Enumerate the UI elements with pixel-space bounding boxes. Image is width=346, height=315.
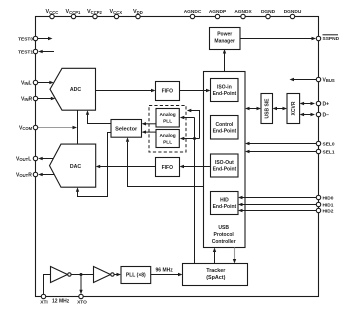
pin TEST0 xyxy=(18,36,38,42)
PLL x8 xyxy=(121,267,151,284)
wire TEST0 input stub xyxy=(38,37,53,40)
pin D- xyxy=(316,112,329,118)
USB protocol controller xyxy=(204,72,246,248)
svg-text:12 MHz: 12 MHz xyxy=(52,299,70,305)
pin VCCP1 xyxy=(66,9,82,19)
pin XTI xyxy=(40,294,48,305)
pin VCCC xyxy=(46,9,59,19)
wire branch up to dashed PLL block input xyxy=(187,109,200,139)
pin VDD xyxy=(133,9,143,19)
analog PLL 2 xyxy=(156,130,179,148)
svg-text:TEST0: TEST0 xyxy=(18,36,33,42)
svg-text:VDD: VDD xyxy=(133,9,143,15)
wire XCVR to D+ pin (bidirectional) xyxy=(300,102,315,105)
pin VOUTR xyxy=(16,172,38,178)
svg-text:HID0: HID0 xyxy=(323,195,334,201)
wire SEL0 to USB PC xyxy=(245,142,316,145)
wire SEL1 to USB PC xyxy=(245,150,316,153)
wire HID2 to HID end-point xyxy=(238,209,316,212)
svg-text:VCCP2: VCCP2 xyxy=(87,9,103,15)
ADC xyxy=(50,68,96,110)
wire DAC to VOUTL xyxy=(38,157,53,160)
wire inverter 1 out to inverter 2 in xyxy=(71,273,93,276)
wire HID0 to HID end-point xyxy=(238,196,316,199)
chip boundary xyxy=(36,17,319,297)
svg-text:96 MHz: 96 MHz xyxy=(156,267,174,273)
wire USB SIE to XCVR (bidirectional) xyxy=(273,107,288,110)
wire USB PC to USB SIE (bidirectional) xyxy=(245,107,261,110)
pin VOUTL xyxy=(16,156,38,162)
wire XCVR to D- pin (bidirectional) xyxy=(300,113,315,116)
svg-text:VCCC: VCCC xyxy=(46,9,59,15)
svg-text:FIFO: FIFO xyxy=(162,165,173,171)
pin VBUS xyxy=(316,77,335,83)
svg-text:AGNDC: AGNDC xyxy=(184,9,202,15)
wire analog PLL 2 to selector xyxy=(142,130,157,133)
svg-text:End-Point: End-Point xyxy=(213,204,237,210)
svg-text:VCOM: VCOM xyxy=(19,125,33,131)
svg-text:Power: Power xyxy=(217,32,232,38)
FIFO F1 (ADC path) xyxy=(156,82,180,101)
FIFO F2 (DAC path) xyxy=(156,158,180,177)
svg-text:XTI: XTI xyxy=(40,300,48,306)
pin DGNDU xyxy=(284,9,302,19)
pin VCCX xyxy=(110,9,123,19)
pin AGNDC xyxy=(184,9,202,19)
dual analog PLL dashed enclosure xyxy=(149,106,186,153)
wire selector to ADC clock xyxy=(86,110,111,123)
wire TEST1 output stub xyxy=(38,50,54,53)
svg-text:ADC: ADC xyxy=(70,87,81,93)
svg-text:FIFO: FIFO xyxy=(162,89,173,95)
svg-text:End-Point: End-Point xyxy=(213,166,237,172)
svg-text:ISO-in: ISO-in xyxy=(217,84,232,90)
pin VinL xyxy=(21,80,38,86)
pin AGNDX xyxy=(234,9,252,19)
control end-point xyxy=(211,116,239,140)
wire ADC bottom to DAC top xyxy=(77,110,79,144)
pin DGND xyxy=(261,9,276,19)
svg-text:VOUTL: VOUTL xyxy=(16,156,31,162)
wire power manager to SSPND pin xyxy=(240,37,316,40)
svg-text:VINL: VINL xyxy=(21,80,32,86)
svg-text:Analog: Analog xyxy=(159,133,175,139)
power manager U-PM xyxy=(210,28,241,50)
pin AGNDP xyxy=(209,9,227,19)
USB SIE xyxy=(261,94,273,124)
wire USB protocol controller to power manager xyxy=(223,49,226,72)
HID end-point xyxy=(211,192,239,215)
svg-text:HID: HID xyxy=(220,198,229,204)
XCVR transceiver xyxy=(287,94,300,124)
pin TEST1 xyxy=(18,49,38,55)
pin HID2 xyxy=(316,208,333,214)
wire PLL to tracker, 96 MHz xyxy=(151,267,183,276)
svg-text:USB: USB xyxy=(218,225,229,231)
pin SEL0 xyxy=(316,141,335,147)
wire VCOM (grey) to ADC/DAC node xyxy=(38,126,77,129)
svg-text:SEL1: SEL1 xyxy=(323,149,335,155)
wire tracker to USB protocol controller xyxy=(213,248,216,264)
wire ISO-out end-point to FIFO F2 xyxy=(180,165,211,168)
wire FIFO F2 to DAC xyxy=(96,165,156,168)
wire inverter 2 out to PLL xyxy=(114,273,121,276)
wire ADC to FIFO F1 xyxy=(96,89,156,92)
wire VinL to ADC xyxy=(38,81,54,84)
svg-text:PLL: PLL xyxy=(163,119,172,125)
wire FIFO F1 to ISO-in end-point xyxy=(180,89,211,92)
wire USB protocol controller to tracker (grey) xyxy=(233,248,236,264)
svg-text:Tracker: Tracker xyxy=(206,268,226,274)
wire selector to DAC clock xyxy=(76,133,111,197)
wire XTI pin to inverter 1 xyxy=(44,275,51,295)
svg-text:USB SIE: USB SIE xyxy=(265,98,271,119)
wire HID1 to HID end-point xyxy=(238,203,316,206)
svg-text:Analog: Analog xyxy=(159,112,175,118)
junction node xyxy=(80,273,83,276)
svg-text:PLL: PLL xyxy=(163,139,172,145)
wire VBUS input stub xyxy=(290,78,317,81)
wire branch to analog PLL 2 xyxy=(180,137,200,140)
svg-text:HID2: HID2 xyxy=(323,208,334,214)
svg-text:VBUS: VBUS xyxy=(323,77,335,83)
tracker (SpAct) xyxy=(183,264,248,286)
svg-text:DGND: DGND xyxy=(261,9,276,15)
svg-text:Protocol: Protocol xyxy=(214,232,235,238)
oscillator inverter 2 xyxy=(94,267,115,283)
svg-text:Controller: Controller xyxy=(212,239,236,245)
pin D+ xyxy=(316,101,329,107)
svg-text:VCCP1: VCCP1 xyxy=(66,9,82,15)
svg-text:VCCX: VCCX xyxy=(110,9,123,15)
svg-text:D−: D− xyxy=(323,112,330,118)
svg-text:Selector: Selector xyxy=(115,126,138,132)
wire VinR to ADC xyxy=(38,97,55,100)
wire DAC to VOUTR xyxy=(38,173,54,176)
pin HID0 xyxy=(316,195,333,201)
wire analog PLL 1 to selector xyxy=(142,122,157,125)
wire branch to selector bottom xyxy=(126,137,204,186)
pin VCCP2 xyxy=(87,9,103,19)
ISO-out end-point xyxy=(211,154,239,177)
svg-text:VINR: VINR xyxy=(21,96,33,102)
ISO-in end-point xyxy=(211,79,239,102)
svg-text:Manager: Manager xyxy=(214,38,235,44)
pin HID1 xyxy=(316,202,333,208)
pin VCOM xyxy=(19,125,38,131)
svg-text:SEL0: SEL0 xyxy=(323,141,335,147)
svg-text:AGNDX: AGNDX xyxy=(234,9,252,15)
svg-text:End-Point: End-Point xyxy=(213,91,237,97)
oscillator inverter 1 xyxy=(51,267,72,283)
svg-text:(SpAct): (SpAct) xyxy=(206,275,225,281)
svg-text:ISO-Out: ISO-Out xyxy=(215,160,234,166)
pin VinR xyxy=(21,96,38,102)
svg-text:End-Point: End-Point xyxy=(213,128,237,134)
DAC xyxy=(50,144,96,187)
svg-text:XTO: XTO xyxy=(77,300,87,306)
svg-text:XCVR: XCVR xyxy=(291,101,297,115)
svg-text:SSPND: SSPND xyxy=(323,36,340,42)
pin XTO xyxy=(77,294,87,305)
svg-text:HID1: HID1 xyxy=(323,202,334,208)
analog PLL 1 xyxy=(156,109,179,128)
pin SSPND (active low) xyxy=(316,35,339,42)
wire tracker clock trunk up to PLL1 xyxy=(180,116,195,264)
pin SEL1 xyxy=(316,149,335,155)
wire node down to XTO pin xyxy=(79,275,82,295)
svg-text:D+: D+ xyxy=(323,101,330,107)
svg-text:Control: Control xyxy=(216,122,234,128)
junction dot on trunk xyxy=(193,137,196,140)
svg-text:VOUTR: VOUTR xyxy=(16,172,32,178)
svg-text:DGNDU: DGNDU xyxy=(284,9,302,15)
svg-text:AGNDP: AGNDP xyxy=(209,9,227,15)
svg-text:TEST1: TEST1 xyxy=(18,49,33,55)
svg-text:PLL (×8): PLL (×8) xyxy=(126,273,146,279)
selector xyxy=(111,120,142,138)
svg-text:DAC: DAC xyxy=(70,164,81,170)
